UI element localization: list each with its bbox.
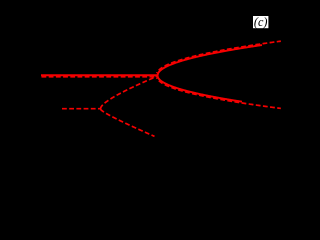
svg-text:(c): (c) [254,15,268,29]
